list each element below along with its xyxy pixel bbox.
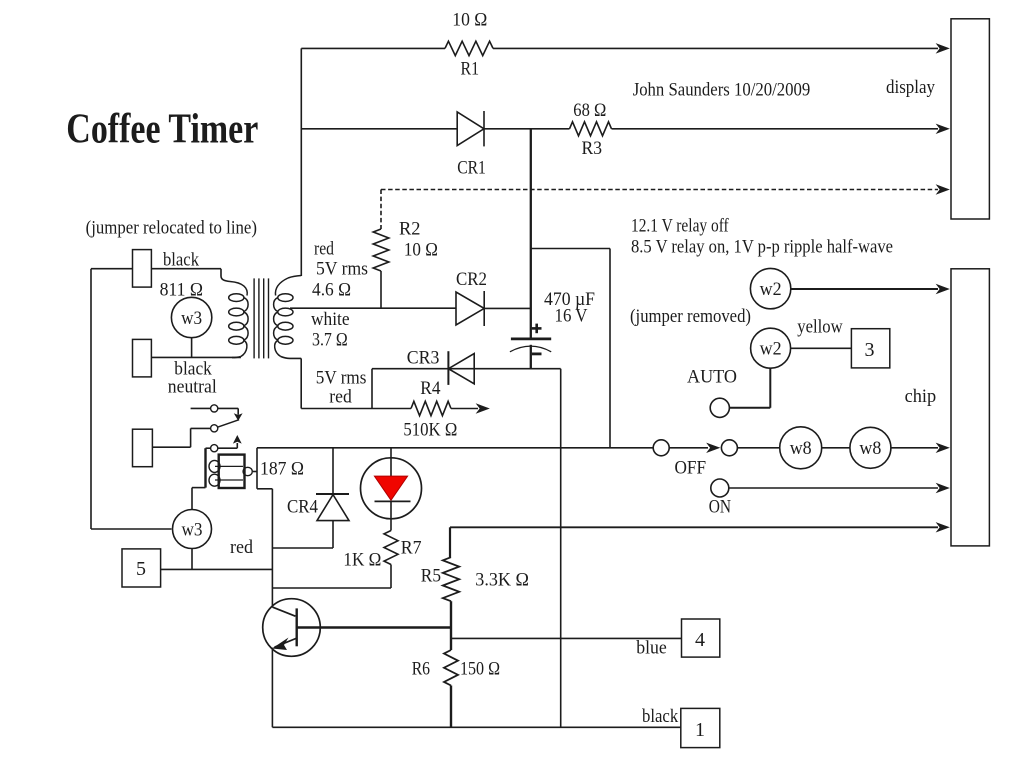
arrowhead into chip bottom row [937,523,950,532]
svg-text:blue: blue [636,639,667,659]
diode CR2 [456,292,484,325]
svg-text:w8: w8 [859,439,881,459]
svg-text:red: red [314,240,335,260]
arrowhead R4 probe [477,404,490,413]
wire blue row [451,637,682,639]
terminal box 4 [682,619,720,657]
wire w8 link [822,447,850,449]
node OFF contact B [721,440,737,456]
svg-text:yellow: yellow [797,318,843,338]
svg-text:4: 4 [695,629,705,651]
wire line in left [91,268,133,270]
wire relay right link [253,471,257,473]
node switch contact top [211,405,218,412]
wire CR3 row left [372,368,448,370]
wire R5 to R6 [450,601,452,650]
wire neutral row [151,356,241,358]
resistor R7 [384,531,398,565]
node switch contact low [211,445,218,452]
arrowhead OFF [707,443,720,452]
wire primary exit to neutral [232,357,241,358]
node switch contact mid [211,425,218,432]
wire contact low right [218,447,238,449]
svg-text:black: black [174,360,212,380]
wire R1 to display [493,47,938,49]
wire cap ground drop [560,369,562,728]
wire secondary bottom drop [300,358,302,408]
wire secondary center tap white [290,307,381,309]
node OFF contact A [653,440,669,456]
wire R7 bottom [390,565,392,589]
wire switched V+ row [257,447,653,449]
arrowhead into display row1 [937,44,950,53]
wire R4 out [451,408,478,410]
wire CR4 drop [332,448,334,494]
svg-text:AUTO: AUTO [687,368,737,388]
wire contact low left stub [206,447,211,449]
wire relay left to w3 [192,487,206,489]
wire CR1 to R3 [484,128,570,130]
node w3 upper [171,297,211,337]
transformer core lines [253,278,255,358]
svg-text:CR1: CR1 [457,159,486,179]
wire CR1 row left [301,128,457,130]
wire R1 row top [301,47,445,49]
wire CR3 out to ground bus [448,368,560,370]
svg-text:68 Ω: 68 Ω [573,101,606,121]
switch blade [218,420,240,428]
svg-text:John Saunders 10/20/2009: John Saunders 10/20/2009 [633,81,811,101]
wire CR4 anode down [332,521,334,548]
wire box5 row [161,568,273,570]
svg-text:3.3K Ω: 3.3K Ω [475,571,529,591]
svg-text:8.5 V relay on, 1V p-p ripple: 8.5 V relay on, 1V p-p ripple half-wave [631,238,893,258]
wire left vertical bus [300,48,302,276]
wire w2 lower drop [769,368,771,408]
wire w2 top to chip [791,288,938,290]
wire dashed feedback row [381,189,938,191]
LED D1 red indicator [361,458,422,519]
node w2 upper [750,268,790,308]
svg-text:3.7 Ω: 3.7 Ω [312,331,348,351]
svg-text:1: 1 [695,719,705,741]
resistor R6 [444,650,458,685]
terminal box 3 [851,329,889,368]
svg-text:16 V: 16 V [555,307,589,327]
display block [951,19,989,219]
node AUTO contact [710,398,729,417]
capacitor C1 470uF [511,337,551,340]
resistor R1 [445,41,493,55]
svg-text:red: red [329,388,352,408]
node w3 lower [173,510,212,549]
wire main rectifier vertical [530,129,532,338]
wire relay arm riser [236,443,238,448]
wire LED drop [390,448,392,477]
svg-text:CR2: CR2 [456,270,487,290]
resistor R5 [443,557,459,601]
wire emitter-collector bus [271,489,273,607]
wire AUTO link [730,407,771,409]
svg-text:150 Ω: 150 Ω [460,660,500,680]
svg-text:R3: R3 [582,139,603,159]
wire switch top out [218,407,238,409]
node w8 left [780,427,822,469]
wire CR2 out [484,307,531,309]
svg-text:w3: w3 [182,521,203,541]
wire switch feed [191,407,211,409]
wire R5 top [449,527,451,557]
terminal box 1 [681,708,720,747]
transistor Q1 [263,599,321,657]
svg-text:w3: w3 [181,309,202,329]
svg-text:3: 3 [865,339,875,361]
svg-text:neutral: neutral [168,378,217,398]
plug pin middle [133,339,152,377]
resistor R2 [373,229,389,271]
svg-text:5V rms: 5V rms [316,260,368,280]
wire R2 to white node [380,271,382,308]
wire line in right [151,268,221,270]
wire primary entry [221,269,230,282]
wire LED cathode down [390,501,392,530]
relay coil K1 [204,448,206,487]
svg-text:4.6 Ω: 4.6 Ω [312,281,351,301]
arrowhead relay arm up [233,435,242,444]
wire left outer bus [90,269,92,529]
wire w8 to chip [891,447,938,449]
svg-text:ON: ON [709,497,731,517]
svg-text:display: display [886,78,936,98]
wire dashed drop to R2 [380,190,382,230]
svg-text:187 Ω: 187 Ω [260,460,304,480]
svg-text:10 Ω: 10 Ω [404,241,438,261]
svg-text:R6: R6 [412,660,430,680]
wire secondary exit bottom [281,357,302,359]
svg-text:black: black [163,251,200,271]
arrowhead switch down [234,413,243,421]
svg-text:w2: w2 [760,340,782,360]
wire yellow to box3 [791,347,852,349]
arrowhead into display row2 [937,124,950,133]
svg-text:5V rms: 5V rms [316,369,367,389]
chip block [951,269,989,546]
wire base bold [297,626,451,629]
wire white to CR2 [381,307,456,309]
svg-text:w8: w8 [790,439,812,459]
diode CR3 [448,354,474,384]
wire OFF arrow link [669,447,708,449]
wire ON to chip [729,487,938,489]
svg-text:5: 5 [136,558,146,580]
svg-text:1K Ω: 1K Ω [343,551,381,571]
transformer primary winding [230,282,247,296]
svg-text:chip: chip [905,387,937,407]
arrowhead into display row3 [937,185,950,194]
node ON contact [711,479,729,497]
svg-text:R5: R5 [421,567,441,587]
diode CR1 [457,112,484,146]
svg-text:CR4: CR4 [287,498,318,518]
svg-text:R7: R7 [401,539,422,559]
wire CR3 branch down [371,369,373,409]
wire chip bold row [450,526,938,528]
node w8 right [850,427,891,468]
wire w3 upper drop [191,338,193,358]
resistor R4 [411,401,451,415]
svg-text:(jumper relocated to line): (jumper relocated to line) [86,219,257,239]
svg-text:(jumper removed): (jumper removed) [630,307,751,327]
svg-text:white: white [311,310,350,330]
arrowhead into chip w8 row [937,443,950,452]
svg-text:CR3: CR3 [407,349,440,369]
svg-text:w2: w2 [760,280,782,300]
svg-text:12.1 V relay off: 12.1 V relay off [631,217,729,237]
terminal box 5 [122,549,161,587]
svg-text:OFF: OFF [675,459,707,479]
svg-text:red: red [230,538,254,558]
svg-text:510K Ω: 510K Ω [403,421,457,441]
svg-text:R1: R1 [461,60,480,80]
diode CR4 [316,493,349,495]
plug pin upper [133,250,152,288]
wire OFF to w8 [737,447,779,449]
svg-text:Coffee Timer: Coffee Timer [66,107,258,153]
wire plug lower link [152,446,190,448]
wire drop to switch row [609,249,611,448]
wire R3 to display [612,128,939,130]
svg-text:black: black [642,707,679,727]
wire w3 lower drop [191,549,193,570]
plug pin lower [133,429,153,467]
arrowhead into chip ON row [937,483,950,492]
transformer secondary winding [275,278,288,296]
arrowhead into chip row1 [937,284,950,293]
svg-text:R2: R2 [399,220,421,240]
svg-text:R4: R4 [420,379,440,399]
resistor R3 [570,122,612,136]
wire R4 row [301,408,411,410]
node w2 lower [751,328,791,368]
wire secondary entry [288,276,301,279]
wire cap top tap right [531,248,610,250]
wire ground bottom rail [272,726,680,728]
wire R6 bottom [450,686,452,728]
svg-text:10 Ω: 10 Ω [452,11,487,31]
